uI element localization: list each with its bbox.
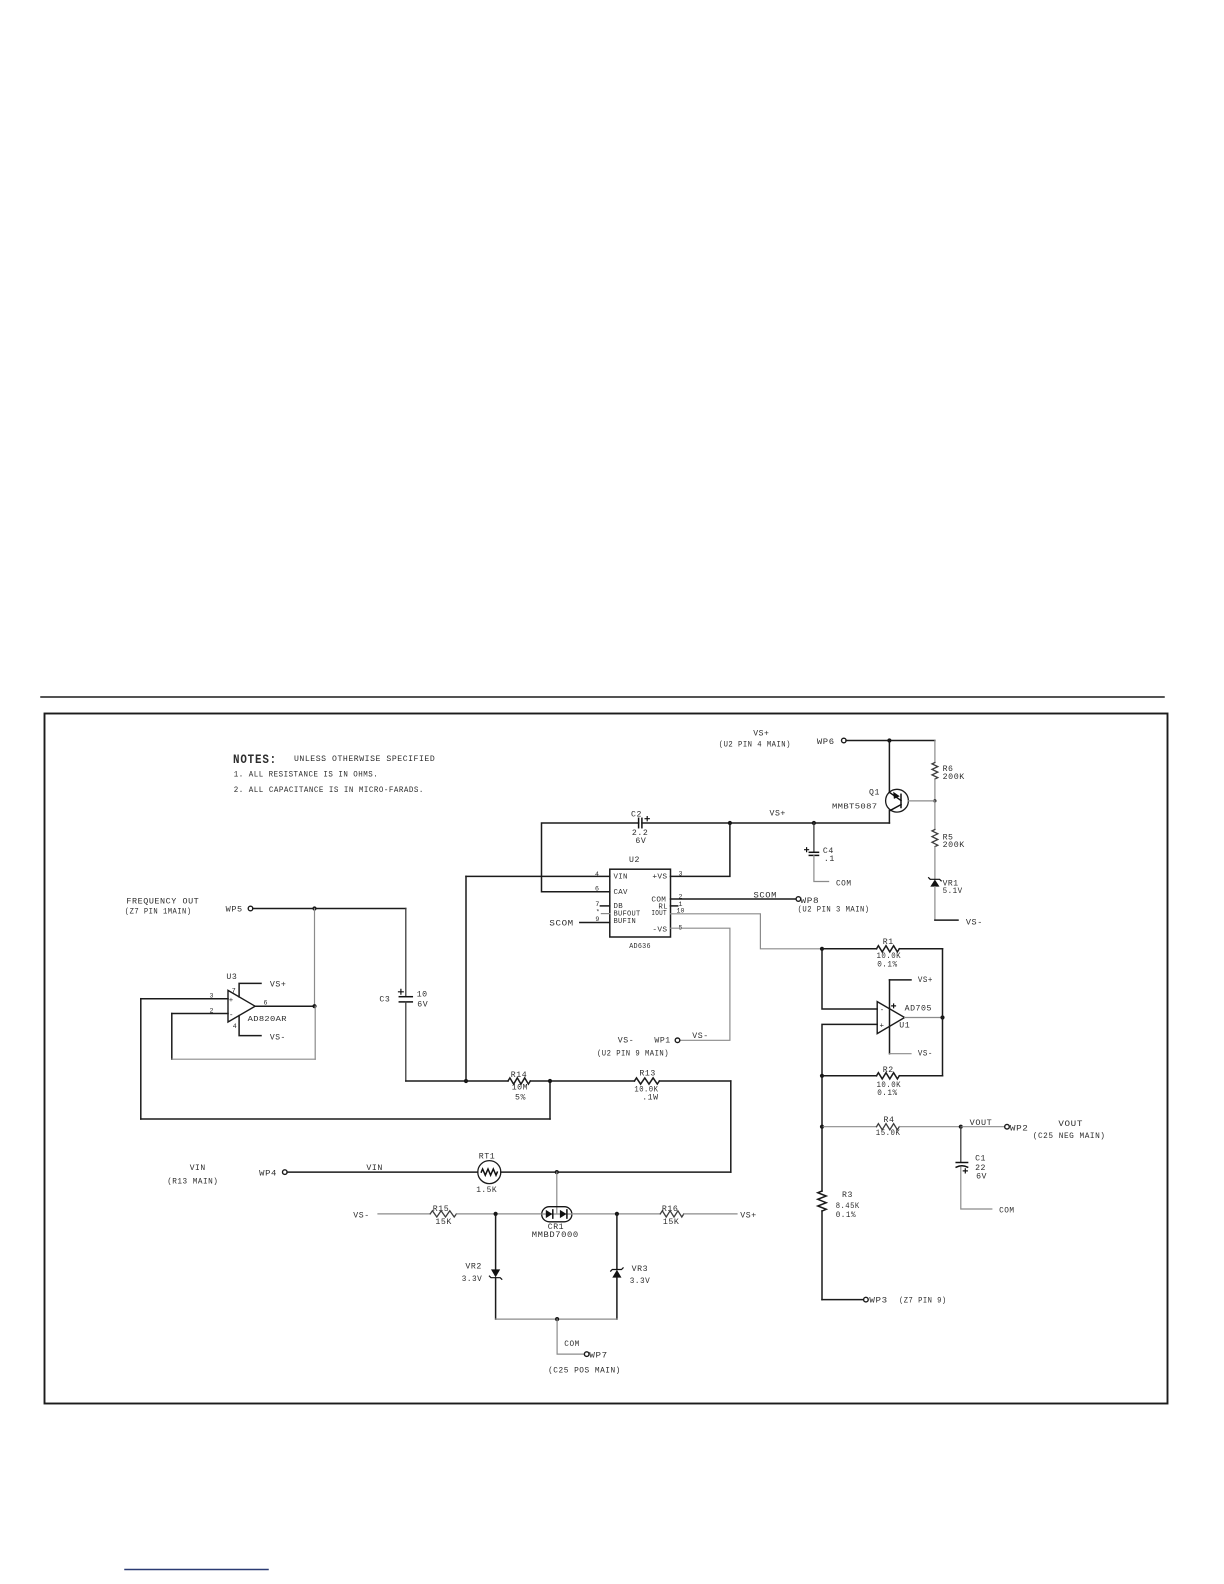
svg-text:WP4: WP4: [259, 1170, 277, 1179]
wire bottom rail: [496, 1318, 617, 1320]
svg-text:VS+: VS+: [770, 810, 786, 819]
svg-text:R4: R4: [884, 1116, 895, 1125]
wire U3 feedback up to output: [314, 1006, 316, 1059]
U2 pin8 BUFOUT stub: [601, 913, 609, 915]
wire U3 -input: [172, 1013, 228, 1015]
svg-text:0.1%: 0.1%: [877, 961, 897, 970]
svg-text:3.3V: 3.3V: [462, 1275, 483, 1284]
wire R3 down to WP3: [821, 1211, 823, 1300]
svg-text:VS-: VS-: [918, 1050, 933, 1059]
svg-text:VR2: VR2: [465, 1262, 482, 1271]
svg-text:6V: 6V: [635, 837, 646, 846]
test point WP1: [675, 1038, 680, 1043]
node R2 left junction: [820, 1074, 824, 1078]
svg-text:+: +: [229, 997, 234, 1005]
wire junction down to U3 output: [314, 909, 316, 1007]
svg-text:C3: C3: [379, 996, 390, 1005]
svg-text:VS+: VS+: [740, 1211, 756, 1220]
wire rail left of C2: [542, 823, 639, 892]
svg-text:SCOM: SCOM: [754, 892, 778, 901]
wire U2 -VS pin down to WP1: [671, 928, 730, 1040]
svg-text:COM: COM: [564, 1340, 580, 1349]
wire R16 to VS+: [684, 1213, 737, 1215]
node CR1 junction: [555, 1170, 559, 1174]
wire R13 to corner: [659, 1080, 730, 1082]
svg-text:1.5K: 1.5K: [476, 1186, 497, 1195]
svg-text:AD705: AD705: [905, 1005, 932, 1014]
svg-text:R2: R2: [883, 1066, 894, 1075]
dual diode CR1 MMBD7000: [542, 1207, 572, 1222]
svg-text:+: +: [880, 1023, 885, 1031]
svg-text:VS-: VS-: [966, 919, 983, 928]
svg-text:(Z7 PIN 9): (Z7 PIN 9): [899, 1295, 947, 1305]
wire U2 IOUT pin: [671, 914, 823, 949]
wire VS+ rail: [642, 822, 890, 824]
node VIN junction: [464, 1079, 468, 1083]
wire +input bottom run: [141, 1118, 550, 1120]
svg-text:VIN: VIN: [366, 1164, 383, 1173]
svg-text:VIN: VIN: [190, 1164, 206, 1173]
svg-text:WP1: WP1: [654, 1037, 670, 1046]
svg-text:COM: COM: [836, 879, 852, 888]
test point WP7: [584, 1352, 589, 1357]
wire VR3 to bottom rail: [616, 1278, 618, 1320]
wire VR3 branch: [616, 1214, 618, 1270]
resistor R2: [822, 1075, 877, 1077]
node junction WP5/output: [312, 906, 316, 910]
svg-text:U1: U1: [899, 1022, 910, 1031]
wire R14 to R13: [530, 1080, 634, 1082]
wire U3 output: [255, 1005, 314, 1007]
svg-text:C2: C2: [631, 811, 642, 820]
wire VR2 to bottom rail: [495, 1278, 497, 1319]
svg-text:8.45K: 8.45K: [836, 1202, 860, 1211]
schematic border frame: [45, 714, 1168, 1404]
wire COM down to WP7: [557, 1319, 584, 1354]
svg-text:-: -: [229, 1012, 234, 1020]
wire VR2 branch: [495, 1214, 497, 1269]
svg-text:10: 10: [417, 991, 428, 1000]
node R1 left junction: [820, 947, 824, 951]
resistor R1: [822, 948, 877, 950]
wire VR1 to VS-: [934, 887, 936, 921]
svg-text:15K: 15K: [663, 1218, 680, 1227]
svg-text:*: *: [596, 909, 600, 916]
svg-text:-VS: -VS: [652, 926, 667, 934]
U3 VS- stub: [239, 1016, 261, 1036]
svg-text:VS+: VS+: [918, 976, 933, 985]
wire R4 node down to R3: [821, 1127, 823, 1191]
zener diode VR3 3.3V: [611, 1268, 623, 1271]
op-amp U1 AD705: [877, 1002, 904, 1034]
svg-text:(Z7 PIN 1MAIN): (Z7 PIN 1MAIN): [125, 907, 192, 917]
svg-text:BUFIN: BUFIN: [614, 918, 637, 926]
zener diode VR2 3.3V: [491, 1269, 500, 1277]
svg-text:R14: R14: [511, 1071, 527, 1080]
svg-text:FREQUENCY OUT: FREQUENCY OUT: [126, 898, 199, 907]
svg-text:15K: 15K: [435, 1218, 452, 1227]
svg-text:MMBT5087: MMBT5087: [832, 803, 878, 811]
svg-text:0.1%: 0.1%: [877, 1089, 897, 1098]
svg-text:U3: U3: [226, 973, 237, 982]
svg-text:WP5: WP5: [226, 906, 243, 915]
horizontal rule (page divider): [41, 696, 1164, 698]
wire down to CR1: [556, 1172, 558, 1214]
wire bottom run up to R14/R13 node: [549, 1081, 551, 1119]
U1 VS- stub: [890, 1053, 912, 1055]
node Q1 base junction: [933, 799, 936, 802]
svg-text:UNLESS OTHERWISE SPECIFIED: UNLESS OTHERWISE SPECIFIED: [294, 755, 435, 764]
test point WP2: [1005, 1124, 1010, 1129]
capacitor C4: [813, 823, 815, 852]
wire R2 node down to R4 node: [821, 1076, 823, 1127]
wire VIN vertical: [465, 876, 467, 1081]
svg-text:CAV: CAV: [614, 889, 628, 897]
wire R5 top lead: [934, 801, 936, 830]
svg-text:200K: 200K: [943, 841, 965, 850]
wire Q1 base to R6/R5 node: [908, 800, 935, 802]
U2 pin7 DB stub: [600, 905, 609, 907]
thermistor RT1: [478, 1161, 501, 1184]
wire C3 to R14: [406, 1080, 508, 1082]
svg-text:WP3: WP3: [869, 1296, 887, 1305]
U1 power line: [889, 980, 891, 1054]
svg-text:4: 4: [595, 871, 599, 878]
resistor R16: [660, 1211, 684, 1217]
svg-text:R13: R13: [639, 1070, 655, 1079]
node C4 junction: [812, 821, 816, 825]
capacitor C3: [405, 909, 407, 997]
svg-text:WP7: WP7: [589, 1352, 607, 1361]
svg-text:VS-: VS-: [618, 1037, 634, 1046]
node VR3 junction: [615, 1212, 619, 1216]
node U1 output junction: [940, 1015, 944, 1019]
wire R1 node down to -input: [822, 949, 877, 1009]
svg-text:10M: 10M: [512, 1084, 528, 1093]
wire U1 +input: [822, 1024, 877, 1075]
svg-text:VR3: VR3: [632, 1265, 649, 1274]
resistor R3: [818, 1191, 826, 1211]
wire R1-R2 right vertical: [942, 949, 944, 1076]
svg-text:R16: R16: [662, 1205, 679, 1214]
svg-text:WP6: WP6: [817, 738, 835, 747]
svg-text:(U2 PIN 3 MAIN): (U2 PIN 3 MAIN): [798, 904, 870, 914]
transistor Q1 MMBT5087: [886, 789, 909, 812]
node R4 left junction: [820, 1125, 824, 1129]
svg-text:(U2 PIN 4 MAIN): (U2 PIN 4 MAIN): [719, 739, 791, 749]
IC U2 AD636 body: [610, 869, 671, 937]
svg-text:WP2: WP2: [1010, 1125, 1029, 1134]
svg-text:(U2 PIN 9 MAIN): (U2 PIN 9 MAIN): [597, 1048, 669, 1058]
wire R6 to base node: [934, 779, 936, 801]
wire VS- to R15: [378, 1213, 430, 1215]
wire U1 output: [905, 1017, 943, 1019]
wire R13 corner down to VIN line: [730, 1081, 732, 1172]
resistor R15: [430, 1211, 456, 1217]
wire SCOM to U2 pin3: [580, 922, 610, 924]
wire U3 feedback down: [171, 1014, 173, 1060]
svg-text:VS-: VS-: [353, 1211, 369, 1220]
svg-text:NOTES:: NOTES:: [233, 752, 277, 767]
svg-text:VOUT: VOUT: [1058, 1120, 1083, 1129]
svg-text:R3: R3: [842, 1191, 853, 1200]
svg-text:VS-: VS-: [692, 1032, 708, 1041]
wire WP6 to R6: [846, 740, 935, 742]
capacitor C1: [960, 1127, 962, 1163]
svg-text:VOUT: VOUT: [970, 1119, 993, 1128]
resistor R13: [634, 1078, 659, 1084]
svg-text:7: 7: [232, 988, 236, 995]
svg-text:Q1: Q1: [869, 788, 880, 797]
zener diode VR1 5.1V: [929, 878, 942, 881]
test point WP3: [864, 1297, 869, 1302]
svg-text:VS-: VS-: [270, 1034, 286, 1043]
test point WP8: [796, 897, 801, 902]
footer blue underline: [125, 1569, 268, 1571]
svg-text:4: 4: [233, 1023, 237, 1030]
svg-text:2. ALL CAPACITANCE IS IN MICRO: 2. ALL CAPACITANCE IS IN MICRO-FARADS.: [234, 786, 424, 795]
U3 VS+ stub: [239, 983, 261, 997]
svg-text:U2: U2: [629, 856, 640, 865]
svg-text:-: -: [880, 1007, 885, 1015]
svg-text:200K: 200K: [943, 773, 965, 782]
svg-text:R15: R15: [433, 1205, 450, 1214]
svg-text:15.0K: 15.0K: [876, 1129, 901, 1138]
wire U2 +VS pin up to rail: [671, 823, 730, 876]
svg-text:5.1V: 5.1V: [943, 887, 963, 896]
node U3 output junction: [312, 1004, 316, 1008]
wire U2 pin4 VIN: [466, 875, 610, 877]
svg-text:AD636: AD636: [629, 943, 651, 951]
svg-text:SCOM: SCOM: [549, 919, 573, 928]
node COM junction: [555, 1317, 559, 1321]
svg-text:VS+: VS+: [753, 730, 769, 739]
svg-text:R1: R1: [883, 938, 894, 947]
svg-text:6V: 6V: [976, 1172, 987, 1181]
node VR2 junction: [494, 1212, 498, 1216]
svg-text:VS+: VS+: [270, 981, 287, 990]
svg-text:.1: .1: [824, 855, 835, 864]
svg-text:3.3V: 3.3V: [630, 1277, 651, 1286]
wire RT1 to R13 corner: [501, 1171, 731, 1173]
svg-text:COM: COM: [999, 1206, 1015, 1215]
svg-text:7: 7: [595, 901, 599, 908]
resistor R14: [508, 1078, 530, 1084]
wire WP4 to RT1: [287, 1171, 478, 1173]
svg-text:6V: 6V: [417, 1001, 428, 1010]
wire VOUT to WP2: [961, 1126, 1005, 1128]
U2 pin1 RL stub: [671, 905, 678, 907]
svg-text:1. ALL RESISTANCE IS IN OHMS.: 1. ALL RESISTANCE IS IN OHMS.: [234, 771, 378, 780]
svg-text:MMBD7000: MMBD7000: [532, 1231, 579, 1240]
wire +input down: [140, 999, 142, 1119]
svg-text:(C25 POS MAIN): (C25 POS MAIN): [548, 1366, 621, 1376]
svg-text:(R13 MAIN): (R13 MAIN): [167, 1177, 218, 1187]
node +VS pin junction: [728, 821, 732, 825]
svg-text:RT1: RT1: [479, 1152, 496, 1161]
svg-text:0.1%: 0.1%: [836, 1211, 856, 1220]
resistor R4: [822, 1126, 877, 1128]
svg-text:5%: 5%: [515, 1094, 526, 1103]
svg-text:IOUT: IOUT: [651, 910, 667, 918]
wire CR1 to R16: [572, 1213, 660, 1215]
svg-text:+VS: +VS: [652, 874, 667, 882]
resistor R5: [932, 830, 938, 847]
wire U3 feedback across: [172, 1058, 315, 1060]
svg-text:(C25 NEG MAIN): (C25 NEG MAIN): [1033, 1131, 1106, 1141]
node VOUT junction: [959, 1125, 963, 1129]
svg-text:C1: C1: [975, 1154, 986, 1163]
svg-text:6: 6: [595, 886, 599, 893]
node Q1 emitter junction: [887, 738, 891, 742]
wire U3 +input: [141, 998, 228, 1000]
wire R15 to CR1: [456, 1213, 541, 1215]
resistor R6: [932, 763, 938, 780]
wire R5 to VR1: [934, 847, 936, 880]
svg-text:AD820AR: AD820AR: [248, 1016, 288, 1024]
wire WP5 to C3: [253, 908, 406, 910]
svg-text:.1W: .1W: [642, 1094, 658, 1103]
node feedback junction: [548, 1079, 552, 1083]
capacitor C2: [638, 818, 640, 827]
svg-text:VIN: VIN: [614, 874, 628, 882]
wire U2 COM pin to WP8: [671, 898, 797, 900]
wire R6 top lead: [934, 741, 936, 763]
